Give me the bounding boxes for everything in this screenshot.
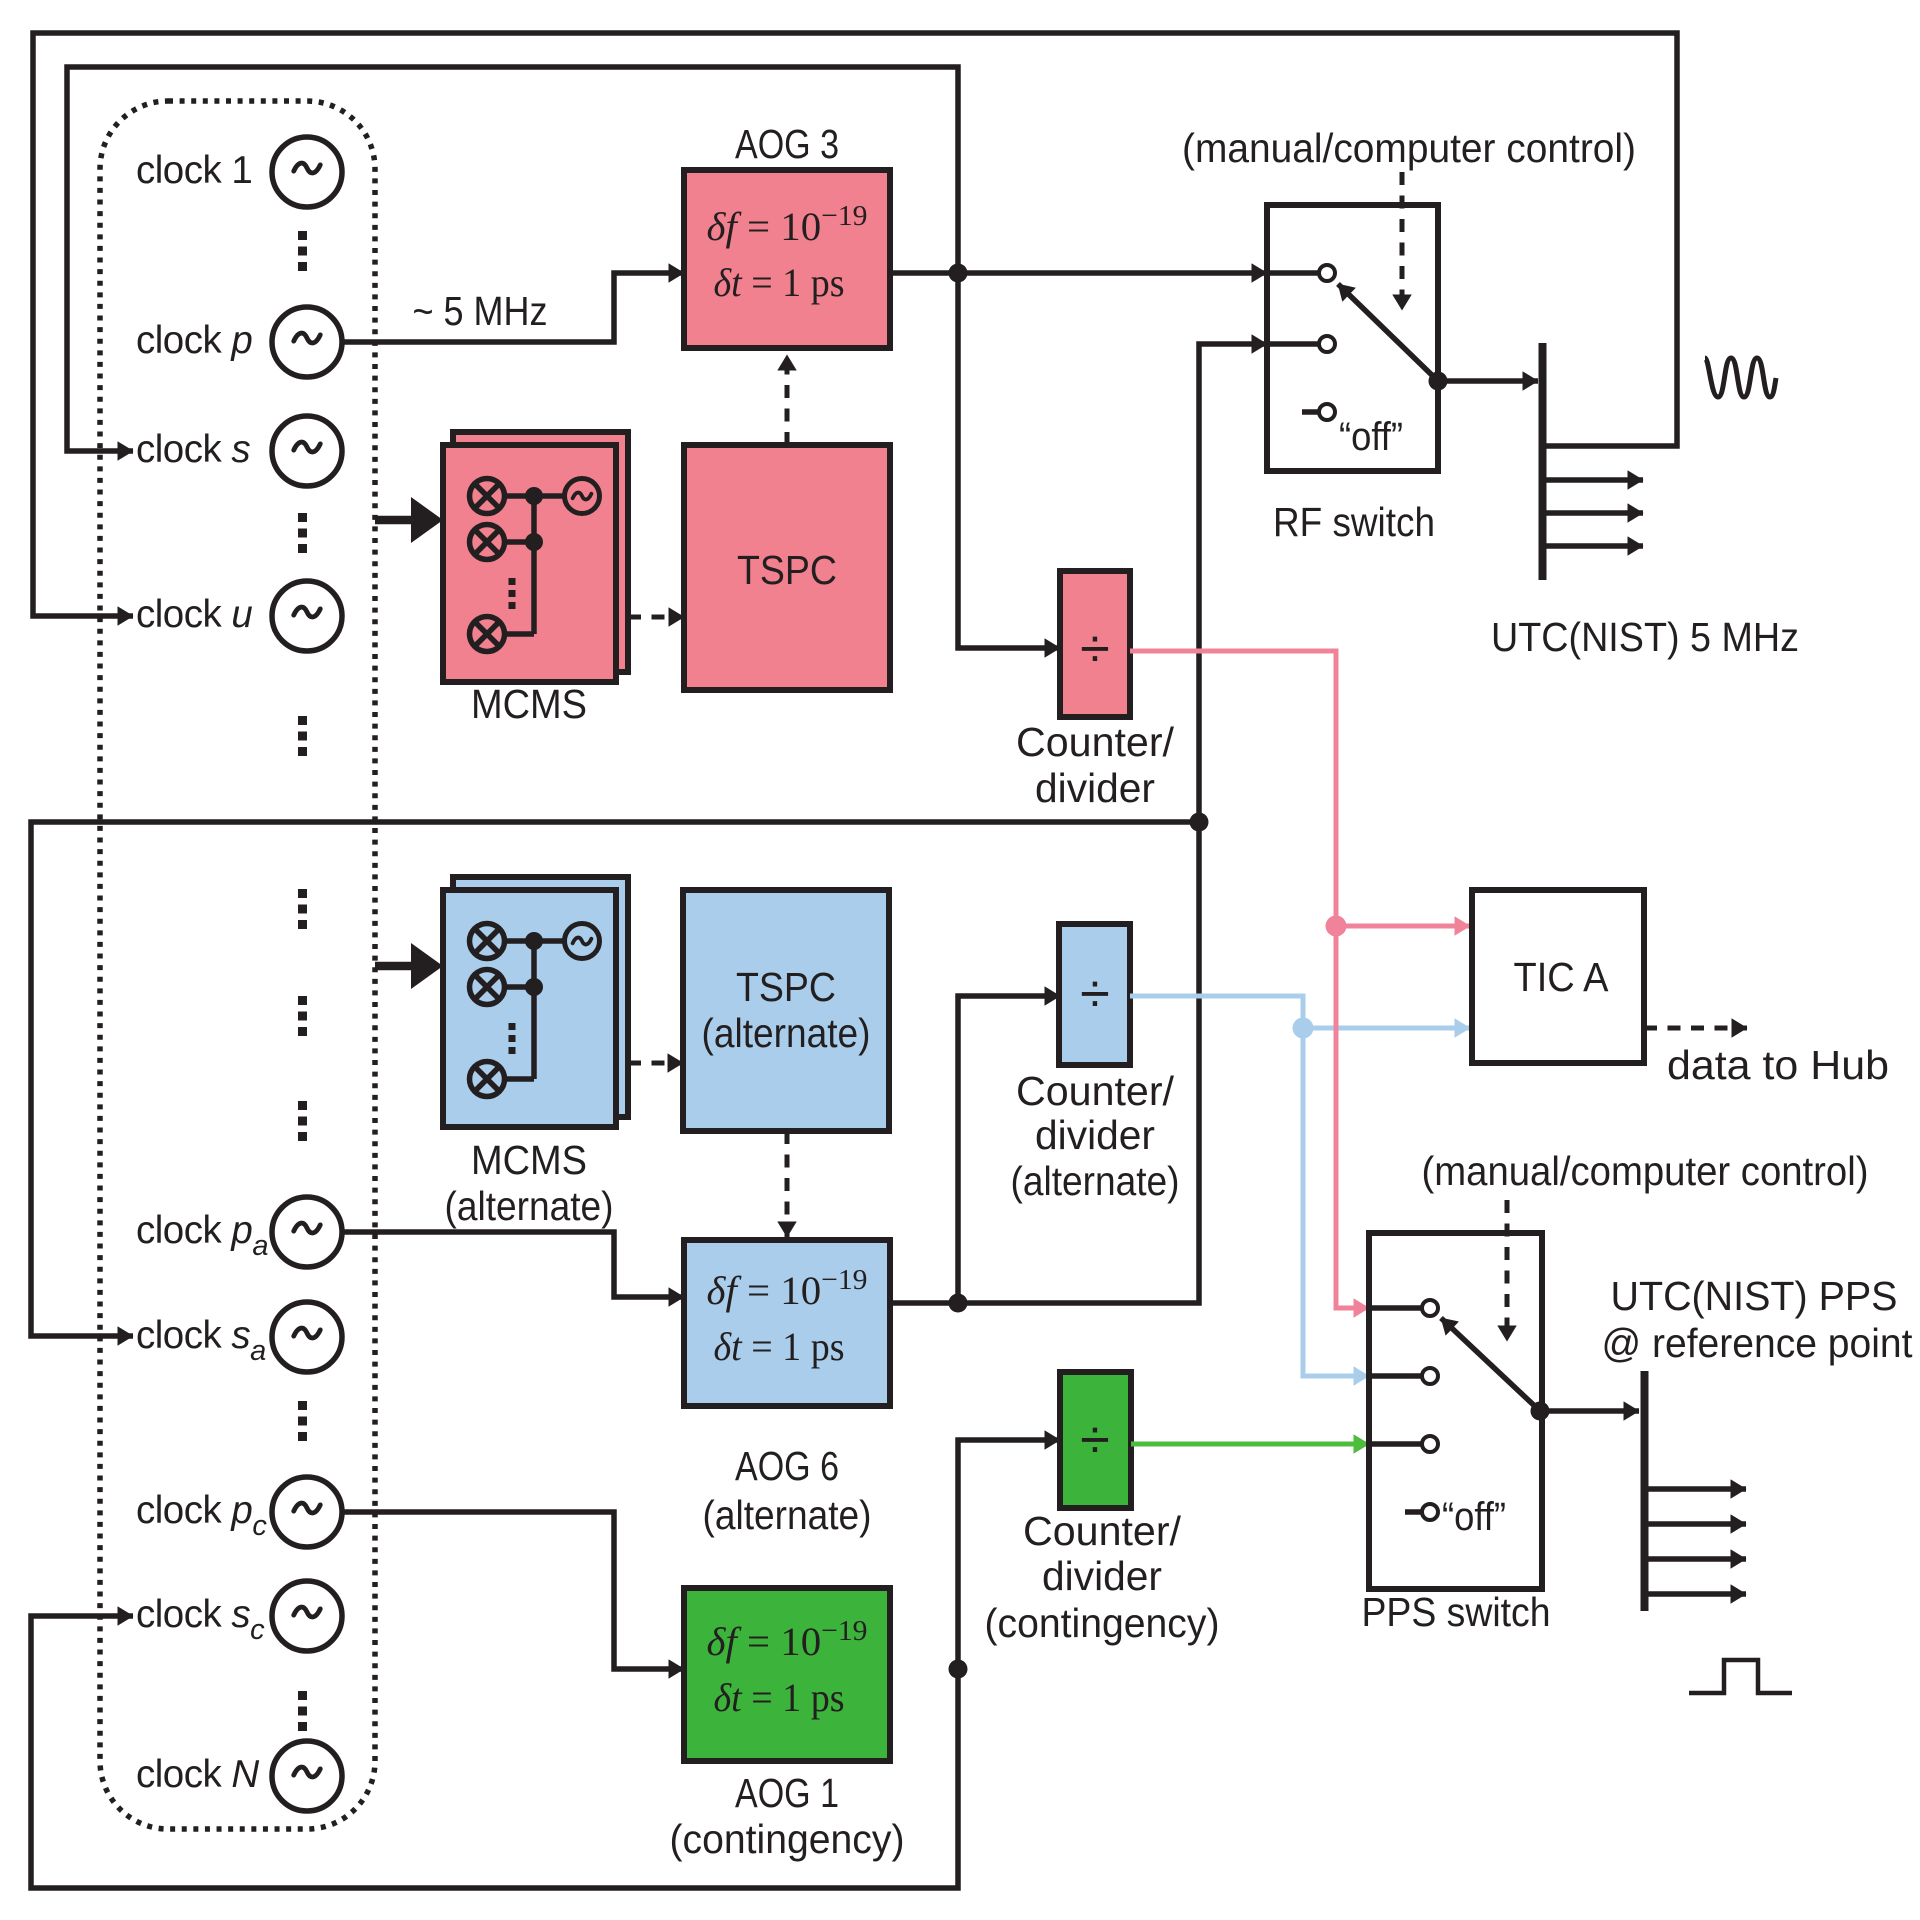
svg-text:÷: ÷ [1080, 964, 1110, 1024]
counter/divider (alternate) box [1059, 924, 1130, 1065]
TIC A box [1472, 890, 1644, 1063]
clock column ellipsis (between clock s_a and clock p_c) [298, 1401, 307, 1410]
distribution amplifier bar (PPS) [1641, 1371, 1649, 1611]
svg-text:TIC A: TIC A [1514, 954, 1610, 1000]
sine wave symbol [1705, 358, 1776, 397]
svg-text:(manual/computer control): (manual/computer control) [1182, 125, 1636, 171]
svg-text:Counter/: Counter/ [1016, 1068, 1175, 1114]
svg-text:δt = 1 ps: δt = 1 ps [714, 1324, 845, 1369]
dist amp output arrow 1 [1546, 477, 1643, 483]
clock N oscillator [272, 1741, 342, 1811]
wire: clock p_a to AOG 6 input [341, 1232, 684, 1297]
svg-text:RF switch: RF switch [1273, 499, 1435, 545]
dashed arrow TSPC to AOG 6 [785, 1131, 790, 1237]
PPS switch input terminal 2 [1369, 1373, 1422, 1379]
svg-text:(alternate): (alternate) [1011, 1158, 1180, 1204]
wire: outer feedback loop (UTC 5 MHz dist amp to clock u) [33, 33, 1677, 616]
svg-text:AOG 1: AOG 1 [735, 1770, 839, 1816]
RF switch input terminal 1 [1267, 270, 1319, 276]
clock column ellipsis (upper mid column) [298, 889, 307, 898]
clock ensemble dotted boundary [100, 101, 375, 1829]
RF switch box [1267, 205, 1438, 471]
clock p_a oscillator [272, 1197, 342, 1267]
svg-text:@ reference point: @ reference point [1602, 1320, 1914, 1366]
green wire: counter/divider (contingency) to PPS switch [1131, 1442, 1369, 1447]
clock s oscillator [272, 416, 342, 486]
PPS switch input terminal 3 [1369, 1441, 1422, 1447]
MCMS alternate (blue) [453, 877, 628, 1117]
clock 1 oscillator [272, 137, 342, 207]
PPS switch box [1369, 1233, 1542, 1589]
clock p oscillator [272, 307, 342, 377]
RF switch pivot [1429, 372, 1448, 391]
clock column ellipsis (below clock u) [298, 716, 307, 725]
svg-text:Counter/: Counter/ [1016, 719, 1175, 765]
junction AOG 1 output node [949, 1660, 968, 1679]
wire: AOG 1 output up to counter/divider (contingency) [958, 1440, 1060, 1669]
svg-text:clock sc: clock sc [136, 1593, 265, 1646]
RF switch input terminal 2 [1267, 341, 1319, 347]
svg-text:MCMS: MCMS [471, 1137, 587, 1183]
TSPC box (pink) [684, 445, 890, 690]
PPS switch lever [1441, 1318, 1540, 1411]
PPS switch input terminal 1 [1369, 1305, 1422, 1311]
wire: AOG 6 output up to counter/divider (alternate) [958, 996, 1060, 1303]
svg-text:TSPC: TSPC [737, 547, 837, 593]
wire: AOG 3 output to RF switch input 1 [890, 270, 1267, 276]
junction AOG 3 output node [949, 264, 968, 283]
svg-text:÷: ÷ [1080, 1410, 1110, 1470]
TSPC (alternate) box [683, 890, 889, 1131]
svg-text:(alternate): (alternate) [702, 1010, 871, 1056]
svg-text:“off”: “off” [1339, 415, 1403, 459]
AOG 6 box [684, 1240, 890, 1406]
wire: alternate feedback loop (AOG 6 output to clock s_a) [31, 822, 1199, 1336]
dashed arrow MCMS to TSPC (alternate) [628, 1061, 683, 1066]
svg-text:MCMS: MCMS [471, 681, 587, 727]
PPS dist amp output arrow 1 [1648, 1486, 1746, 1492]
blue wire junction [1293, 1018, 1314, 1039]
junction alternate loop node [1190, 813, 1209, 832]
svg-text:divider: divider [1035, 765, 1155, 811]
svg-text:clock 1: clock 1 [136, 149, 252, 192]
svg-text:(manual/computer control): (manual/computer control) [1422, 1148, 1869, 1194]
RF switch off terminal [1302, 409, 1319, 415]
svg-text:(contingency): (contingency) [670, 1816, 905, 1862]
svg-text:clock pa: clock pa [136, 1209, 268, 1262]
dashed arrow MCMS to TSPC [628, 615, 684, 620]
clock column ellipsis (between clock s_c and clock N) [298, 1691, 307, 1700]
RF switch lever [1338, 284, 1438, 381]
svg-text:divider: divider [1042, 1553, 1162, 1599]
AOG 3 box [684, 170, 890, 348]
svg-text:δt = 1 ps: δt = 1 ps [714, 1675, 845, 1720]
svg-text:divider: divider [1035, 1112, 1155, 1158]
dist amp output arrow 3 [1546, 543, 1643, 549]
thick arrow into MCMS [375, 516, 415, 525]
clock column ellipsis (mid column) [298, 996, 307, 1005]
svg-text:UTC(NIST) PPS: UTC(NIST) PPS [1611, 1273, 1898, 1319]
thick arrow into MCMS (alternate) [375, 962, 415, 971]
svg-text:clock N: clock N [136, 1753, 259, 1796]
svg-text:clock pc: clock pc [136, 1489, 267, 1542]
AOG 1 box [684, 1588, 890, 1761]
svg-text:“off”: “off” [1442, 1495, 1506, 1539]
dashed control arrow into PPS switch [1505, 1200, 1510, 1341]
pink wire junction [1326, 916, 1347, 937]
svg-text:PPS switch: PPS switch [1362, 1589, 1551, 1635]
wire: contingency feedback loop (AOG 1 output to clock s_c) [31, 1616, 958, 1888]
svg-text:clock s: clock s [136, 428, 250, 471]
svg-text:clock sa: clock sa [136, 1314, 266, 1367]
MCMS (pink) multi-channel measurement system [453, 432, 628, 672]
PPS dist amp output arrow 2 [1648, 1521, 1746, 1527]
svg-text:AOG 6: AOG 6 [735, 1443, 839, 1489]
pulse symbol [1689, 1660, 1792, 1693]
dashed control arrow into RF switch [1400, 172, 1405, 310]
wire: PPS switch output to distribution amplifier [1540, 1408, 1639, 1414]
PPS switch pivot [1531, 1402, 1550, 1421]
pink wire: counter/divider to TIC A and PPS switch [1130, 651, 1369, 1308]
PPS switch off terminal [1405, 1509, 1422, 1515]
svg-text:÷: ÷ [1080, 619, 1110, 679]
distribution amplifier bar (5 MHz) [1539, 343, 1547, 580]
svg-text:AOG 3: AOG 3 [735, 121, 839, 167]
dashed arrow TIC A data out [1644, 1026, 1747, 1031]
svg-text:Counter/: Counter/ [1023, 1508, 1182, 1554]
blue wire: counter/divider (alternate) to TIC A and PPS switch [1130, 996, 1369, 1376]
clock column ellipsis (between clock 1 and clock p) [298, 231, 307, 240]
dashed arrow TSPC to AOG 3 [785, 355, 790, 445]
clock s_a oscillator [272, 1302, 342, 1372]
svg-text:δt = 1 ps: δt = 1 ps [714, 260, 845, 305]
svg-text:UTC(NIST) 5 MHz: UTC(NIST) 5 MHz [1491, 614, 1799, 660]
svg-text:clock p: clock p [136, 319, 252, 362]
svg-text:(alternate): (alternate) [703, 1492, 872, 1538]
wire: clock p to AOG 3 input [341, 273, 684, 342]
svg-text:clock u: clock u [136, 593, 252, 636]
svg-text:data to Hub: data to Hub [1667, 1042, 1889, 1088]
counter/divider (contingency) box [1060, 1372, 1131, 1508]
svg-text:(contingency): (contingency) [985, 1600, 1220, 1646]
svg-text:TSPC: TSPC [736, 964, 836, 1010]
counter/divider box (pink) [1060, 571, 1130, 717]
svg-text:(alternate): (alternate) [445, 1183, 614, 1229]
wire: AOG 6 output to RF switch input 2 [890, 344, 1267, 1303]
PPS dist amp output arrow 3 [1648, 1556, 1746, 1562]
clock p_c oscillator [272, 1477, 342, 1547]
wire: clock p_c to AOG 1 input [341, 1512, 684, 1669]
clock column ellipsis (between clock s and clock u) [298, 513, 307, 522]
clock s_c oscillator [272, 1581, 342, 1651]
svg-text:~ 5 MHz: ~ 5 MHz [413, 288, 548, 334]
junction AOG 6 output node [949, 1294, 968, 1313]
wire: inner feedback loop (AOG 3 output to clock s) [67, 67, 958, 451]
clock u oscillator [272, 581, 342, 651]
wire: RF switch output to distribution amplifier [1438, 378, 1538, 384]
clock column ellipsis (lower mid column) [298, 1101, 307, 1110]
dist amp output arrow 2 [1546, 510, 1643, 516]
wire: AOG 3 output down to counter/divider [958, 273, 1060, 648]
PPS dist amp output arrow 4 [1648, 1591, 1746, 1597]
